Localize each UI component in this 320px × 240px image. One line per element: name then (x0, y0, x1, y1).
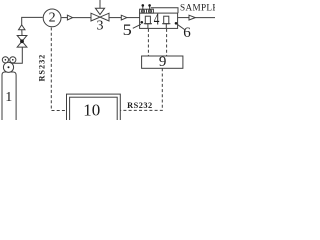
flow arrow right B (121, 15, 127, 20)
pressure gauge left (2, 57, 8, 63)
wire riser to pump inlet (22, 17, 43, 25)
flow arrow right A (67, 15, 72, 20)
pin terminal right (148, 4, 151, 9)
dashed signal pump 2 to computer 10 (51, 28, 66, 111)
svg-text:RS232: RS232 (127, 101, 153, 110)
measuring cell 4 (140, 13, 178, 28)
three-way valve 3 (91, 0, 109, 21)
sensor head box (140, 9, 154, 13)
wire arrow to cell inlet (127, 17, 140, 19)
leader line 6 (177, 24, 185, 29)
wire to sample edge (195, 17, 215, 19)
computer 10 (67, 94, 121, 122)
shut-off valve (17, 36, 27, 48)
leader line 5 (133, 24, 141, 28)
svg-text:3: 3 (97, 19, 104, 34)
flow arrow right C (189, 15, 195, 20)
svg-text:SAMPLE: SAMPLE (180, 2, 215, 12)
wire pump to arrow (62, 17, 68, 19)
wire arrow to valve 3 (73, 17, 91, 19)
svg-text:10: 10 (83, 101, 100, 120)
signal wire to SAMPLE side (151, 8, 178, 13)
regulator body (3, 62, 13, 72)
controller 9 (142, 56, 183, 68)
cuvette right (162, 16, 170, 28)
flow arrow up (19, 25, 26, 30)
wire cell outlet (178, 17, 189, 19)
pump 2 (43, 9, 61, 27)
pressure gauge right (10, 57, 16, 63)
dashed signal cuvette left to controller 9 (147, 29, 149, 56)
svg-text:6: 6 (183, 25, 191, 41)
gas cylinder 1 (2, 72, 16, 122)
wire regulator outlet to riser (12, 47, 22, 63)
svg-text:4: 4 (154, 11, 160, 30)
svg-text:9: 9 (159, 54, 167, 70)
svg-text:5: 5 (123, 21, 132, 38)
port dot 6 (175, 22, 178, 25)
pin terminal left (142, 4, 145, 9)
cuvette left (144, 16, 152, 28)
port dot 5 (141, 21, 144, 24)
wire valve to arrow (21, 30, 23, 36)
svg-text:2: 2 (49, 11, 56, 26)
svg-text:1: 1 (5, 90, 12, 105)
svg-text:RS232: RS232 (38, 54, 47, 82)
wire valve 3 to arrow (109, 17, 121, 19)
dashed signal cuvette right to controller 9 (166, 29, 168, 56)
dashed signal controller 9 to computer 10 (120, 68, 162, 110)
